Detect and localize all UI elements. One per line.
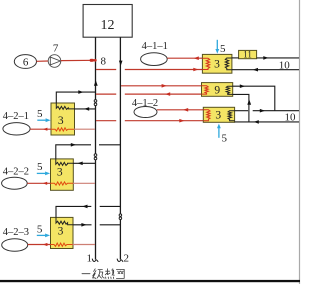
svg-text:5: 5 bbox=[37, 108, 43, 120]
wire ellipse 4-1-2 to exchanger 3 (red, arrow left) bbox=[157, 109, 203, 111]
primary coil red (9) bbox=[202, 86, 209, 94]
tap water inlet arrow 5 (blue, down) bbox=[216, 40, 218, 50]
wire building return (arrow left) bbox=[232, 69, 299, 71]
svg-text:3: 3 bbox=[57, 166, 63, 178]
wire: box top riser to line 2 (arrow right, jump line 1) bbox=[56, 145, 91, 159]
page bottom rule bbox=[0, 280, 300, 282]
svg-text:1: 1 bbox=[87, 253, 93, 265]
heat source ellipse 6 bbox=[14, 55, 36, 69]
page right border bbox=[299, 0, 300, 284]
wire: exchanger 3 out to building supply 10 (gap at riser, arrow right) bbox=[235, 110, 249, 112]
primary coil red bbox=[203, 110, 210, 121]
svg-text:5: 5 bbox=[37, 161, 43, 173]
wire exchanger to regulator 11 bbox=[232, 57, 239, 59]
break symbol on line 1 (lower pair) bbox=[94, 154, 97, 157]
热 bbox=[105, 269, 114, 279]
consumer ellipse 4-2-3 bbox=[2, 239, 28, 252]
svg-text:8: 8 bbox=[101, 55, 107, 67]
primary coil red (bottom) bbox=[51, 182, 74, 185]
exchanger 9 bbox=[202, 83, 233, 97]
pipe break squiggle bottom of line 1 bbox=[92, 259, 98, 262]
网 bbox=[116, 269, 124, 278]
heat exchanger 3 (4-1-1) bbox=[202, 54, 232, 73]
svg-text:4–1–1: 4–1–1 bbox=[142, 41, 168, 52]
wire: heat exchanger to ellipse (red, arrow left) bbox=[167, 57, 202, 59]
tap water arrow 5 (blue right) bbox=[37, 119, 46, 121]
secondary coil black (9) bbox=[226, 86, 233, 94]
wire exchanger 9 to line 1 (red, arrow left, jump line 2) bbox=[96, 93, 116, 95]
svg-text:3: 3 bbox=[58, 115, 64, 127]
exchanger 3 (4-2-2) bbox=[51, 159, 74, 190]
tap water inlet arrow 5 (blue, up) bbox=[218, 128, 220, 138]
一 bbox=[82, 273, 90, 275]
svg-text:4–2–1: 4–2–1 bbox=[3, 111, 29, 122]
svg-text:4–2–3: 4–2–3 bbox=[3, 227, 29, 238]
wire: red through box to ellipse (arrow left) and to line 1 bbox=[30, 128, 51, 130]
级 bbox=[93, 269, 105, 279]
svg-text:11: 11 bbox=[243, 50, 252, 60]
flow arrow up on line 1 bbox=[94, 80, 98, 86]
pump 7 bbox=[48, 55, 61, 68]
wire 8: pump to line 1 (red) bbox=[61, 59, 95, 61]
wire: exchanger 9 top out, right then down to supply 10 bbox=[233, 86, 275, 111]
svg-text:3: 3 bbox=[58, 225, 64, 237]
secondary coil black bbox=[228, 111, 235, 121]
consumer ellipse 4-2-1 bbox=[3, 123, 30, 135]
label 一级热网 (primary heat network, drawn strokes) bbox=[82, 269, 124, 279]
svg-text:9: 9 bbox=[214, 84, 220, 96]
wire regulator to building supply 10 (arrow right) bbox=[257, 57, 299, 59]
svg-text:7: 7 bbox=[53, 42, 59, 54]
svg-text:3: 3 bbox=[215, 110, 221, 122]
regulator 11 bbox=[239, 50, 257, 58]
secondary coil (black) bbox=[225, 58, 232, 70]
svg-text:2: 2 bbox=[124, 253, 130, 265]
primary coil (red) bbox=[202, 58, 209, 69]
wire: red through box to ellipse (arrow left) and to line 1 bbox=[27, 182, 50, 184]
wire: box top riser out to line 1 (arrow right) bbox=[56, 92, 95, 103]
tap water arrow 5 (blue right) bbox=[37, 172, 46, 174]
wire: line 1 to box right side (arrow left) bbox=[73, 162, 95, 164]
wire: line 1 to exchanger (red, arrow right, jump over line 2) bbox=[96, 69, 116, 71]
svg-text:4–1–2: 4–1–2 bbox=[132, 98, 158, 109]
consumer ellipse 4-1-1 bbox=[141, 53, 168, 66]
consumer ellipse 4-2-2 bbox=[2, 177, 28, 189]
svg-text:12: 12 bbox=[101, 18, 115, 33]
svg-text:4–2–2: 4–2–2 bbox=[3, 166, 29, 177]
consumer ellipse 4-1-2 bbox=[134, 107, 157, 118]
break symbol on line 2 bbox=[119, 214, 122, 217]
svg-text:3: 3 bbox=[214, 58, 220, 70]
wire line 1 to exchanger 3 (red, arrow right, jump line 2) bbox=[96, 120, 116, 122]
wire: box right side to line 2 (arrow right, jump line 1) bbox=[73, 224, 92, 226]
primary coil red (bottom) bbox=[51, 128, 74, 131]
return trunk line 2 bbox=[119, 37, 121, 259]
svg-text:5: 5 bbox=[37, 224, 43, 236]
tap water arrow 5 (blue right) bbox=[37, 234, 46, 236]
secondary coil black (top) bbox=[56, 103, 74, 109]
primary coil red (bottom) bbox=[51, 243, 73, 246]
pipe break squiggle bottom of line 2 bbox=[117, 259, 123, 262]
wire: line 1 to box right side (arrow left) bbox=[74, 108, 95, 110]
heat source box 12 bbox=[83, 5, 132, 38]
wire: exchanger 9 bottom port down to return L3 (up arrow) bbox=[233, 94, 249, 122]
exchanger 3 (4-2-1) bbox=[51, 103, 75, 135]
exchanger 3 (4-2-3) bbox=[51, 217, 74, 248]
exchanger 3 (4-1-2) bbox=[203, 107, 234, 122]
svg-text:5: 5 bbox=[222, 132, 228, 144]
svg-text:6: 6 bbox=[23, 57, 29, 69]
supply trunk line 1 bbox=[95, 37, 97, 259]
wire: box top riser to line 2 (arrow LEFT, jump line 1) bbox=[56, 206, 91, 217]
flow arrow down on line 2 bbox=[119, 61, 123, 66]
secondary coil black (top) bbox=[56, 217, 73, 224]
svg-text:5: 5 bbox=[220, 43, 226, 55]
wire line2 to exchanger 9 (red, arrow right) bbox=[121, 85, 202, 87]
break symbol on line 1 (upper pair) bbox=[94, 100, 97, 103]
secondary coil black (top) bbox=[56, 159, 73, 166]
wire: red through box to ellipse (arrow left) and to line 1 bbox=[28, 244, 51, 246]
wire: building return to exchanger 3 (arrow left) bbox=[235, 121, 299, 123]
wire source to pump (red) bbox=[37, 60, 49, 62]
